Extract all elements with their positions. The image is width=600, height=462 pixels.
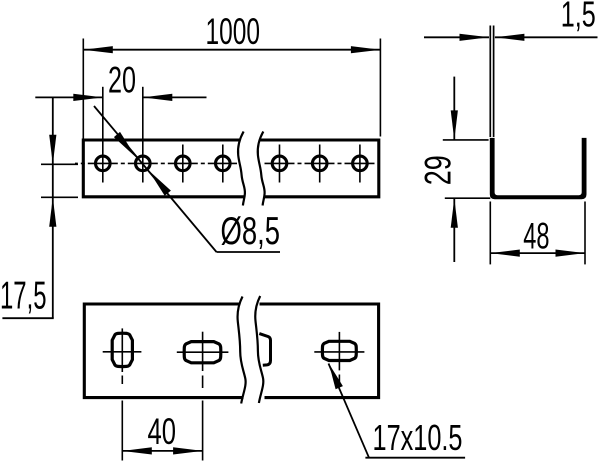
slot S2 vertical centerline [202, 332, 204, 371]
slot S3 vertical centerline [338, 332, 340, 371]
dimension 48 right arrow [556, 250, 586, 257]
dimension 48 right extension line [584, 202, 586, 265]
hole H6 [312, 156, 327, 171]
dimension 20 line left segment with right-pointing arrow [35, 96, 103, 98]
dimension 29 top extension line [443, 139, 489, 141]
slot S3 vertical centerline dash [338, 375, 340, 385]
hole H1 [96, 156, 111, 171]
dimension 1,5 line left [424, 36, 489, 38]
hole H5 vertical centerline [279, 145, 281, 183]
dimension 20 left arrow [73, 94, 103, 101]
channel profile thick contour [490, 138, 587, 199]
dimension 1,5 line right [495, 36, 598, 38]
hole H4 [216, 156, 231, 171]
dimension 17,5 underline [2, 317, 53, 319]
dimension 29 down arrow [451, 110, 458, 139]
dimension 48 left extension line [489, 202, 491, 265]
svg-text:48: 48 [523, 215, 549, 256]
hole H3 [176, 156, 191, 171]
slot S2 vertical centerline dash [202, 376, 204, 389]
dimension 29 bottom extension line [445, 197, 491, 199]
slot S1 vertical centerline [121, 328, 123, 372]
svg-text:1,5: 1,5 [561, 0, 596, 35]
slot S2 (horizontal) [184, 342, 221, 363]
dimension 1000 left arrow [83, 46, 113, 53]
slot size leader underline [365, 457, 465, 459]
dimension 17,5 vertical line upper [52, 97, 54, 164]
dimension 48 left arrow [490, 250, 520, 257]
centerline through holes right run [262, 162, 378, 164]
bar outline left portion [83, 140, 244, 197]
hole H6 vertical centerline [319, 145, 321, 183]
slot S1 (vertical) [112, 333, 132, 366]
centerline through holes left run [75, 162, 237, 164]
svg-text:17x10.5: 17x10.5 [373, 417, 463, 458]
slot S1 vertical centerline dash [121, 376, 123, 385]
dimension 40 left arrow [122, 447, 152, 454]
break line right S (top view) [258, 132, 265, 206]
svg-text:17,5: 17,5 [0, 275, 47, 318]
diameter leader underline [217, 251, 281, 253]
sheet thickness double line outer [489, 26, 491, 138]
hole H2 [136, 156, 151, 171]
svg-text:40: 40 [148, 411, 177, 452]
svg-text:1000: 1000 [206, 11, 261, 52]
break line left S (bottom view) [238, 297, 246, 404]
hole H7 vertical centerline [359, 145, 361, 183]
dimension 1000 right arrow [351, 46, 381, 53]
dimension 29 up arrow [451, 198, 458, 228]
hole H5 [272, 156, 287, 171]
diameter leader upper arrow [114, 132, 136, 158]
break line right S (bottom view) [255, 296, 263, 403]
bottom bar outline left portion [84, 304, 243, 398]
dimension 1000 line [83, 49, 380, 51]
dimension 17,5 vertical line lower leader [52, 164, 54, 318]
break line left S (top view) [238, 132, 245, 206]
dimension 17,5 lower tick extension [41, 196, 78, 198]
diameter leader lower arrow [149, 170, 171, 196]
slot S2 horizontal centerline [177, 351, 229, 353]
sheet thickness double line inner [493, 26, 495, 138]
dimension 1000 left extension line [82, 39, 84, 141]
bar outline right portion [261, 140, 379, 197]
dimension 1000 right extension line [379, 39, 381, 137]
dimension 1,5 left arrow [460, 34, 490, 41]
dimension 1,5 right arrow [495, 34, 525, 41]
bottom bar outline right portion [260, 304, 379, 398]
hole H4 vertical centerline [222, 145, 224, 183]
dimension 29 vertical line lower [453, 198, 455, 262]
hole H3 vertical centerline [182, 145, 184, 183]
svg-text:20: 20 [108, 60, 136, 101]
svg-text:Ø8,5: Ø8,5 [221, 210, 281, 253]
dimension 20 line right segment [143, 96, 207, 98]
hole H1 vertical centerline extended to 20-dim [102, 87, 104, 183]
dimension 40 left extension line [121, 401, 123, 461]
slot size leader line [329, 364, 370, 458]
dimension 48 line [490, 252, 585, 254]
slot fragment at break [259, 334, 270, 366]
hole H2 vertical centerline extended to 20-dim [142, 87, 144, 183]
slot S1 horizontal centerline [103, 351, 142, 353]
slot S3 (horizontal) [322, 341, 356, 360]
slot S3 horizontal centerline [314, 351, 364, 353]
dimension 40 right extension line [202, 401, 204, 461]
dimension 40 right arrow [173, 447, 203, 454]
dimension 20 right arrow [143, 94, 173, 101]
svg-text:29: 29 [418, 155, 459, 185]
dimension 29 vertical line upper [453, 77, 455, 140]
diameter leader line through hole H2 [94, 106, 217, 252]
slot size leader arrow [329, 364, 343, 390]
dimension 17,5 upper tick extension [41, 163, 78, 165]
dimension 17,5 down arrow [49, 135, 56, 165]
dimension 17,5 up arrow [49, 197, 56, 227]
dimension 40 line [122, 450, 202, 452]
hole H7 [353, 156, 368, 171]
